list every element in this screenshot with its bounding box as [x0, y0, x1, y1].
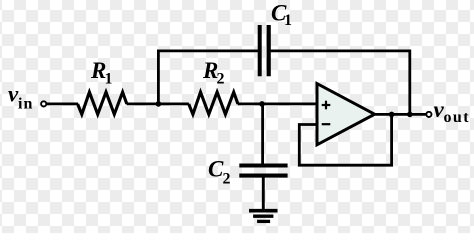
wire C2 to ground — [262, 177, 265, 210]
capacitor C2 — [239, 166, 287, 176]
resistor R2 — [189, 92, 238, 114]
node A junction dot — [156, 101, 162, 107]
wire node A up to C1 — [158, 51, 258, 104]
node junction dot feedback — [389, 112, 395, 118]
svg-text:1: 1 — [105, 70, 113, 87]
node junction dot C1 branch — [407, 112, 413, 118]
wire R1 to opamp + input (through nodes A and B) — [127, 103, 189, 106]
svg-text:in: in — [18, 95, 33, 112]
wire C1 to output node — [271, 51, 410, 115]
node vout terminal — [426, 112, 431, 117]
svg-text:1: 1 — [284, 12, 292, 29]
node B junction dot — [259, 101, 265, 107]
wire vin to R1 — [47, 103, 78, 106]
capacitor C1 — [260, 25, 269, 76]
svg-text:2: 2 — [223, 170, 231, 187]
op-amp U1 — [317, 84, 375, 145]
node vin terminal — [41, 101, 46, 106]
svg-text:2: 2 — [217, 70, 225, 87]
wire feedback loop (output to inverting input) — [299, 114, 391, 165]
svg-text:out: out — [444, 109, 470, 126]
resistor R1 — [78, 92, 127, 114]
wire opamp output to vout — [374, 113, 426, 116]
wire R2 to opamp — [238, 103, 317, 106]
wire node B down to C2 — [261, 104, 264, 164]
ground — [249, 211, 278, 222]
